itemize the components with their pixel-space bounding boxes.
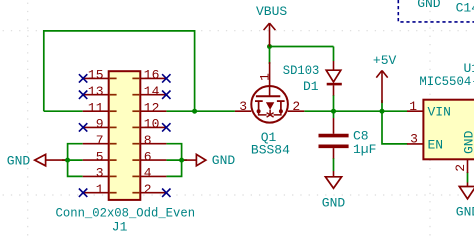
svg-text:14: 14	[144, 84, 160, 99]
junction +5V	[380, 109, 385, 114]
U1 pin number 1	[409, 99, 417, 114]
svg-text:1µF: 1µF	[353, 142, 376, 157]
C8 reference	[353, 128, 369, 143]
U1 pin name VIN	[428, 104, 451, 119]
wire C8 bottom to GND	[333, 158, 335, 171]
U1 pin name GND (rotated)	[461, 130, 474, 154]
J1 pin stubs inside body	[110, 78, 140, 192]
GND label in dashed box	[417, 0, 441, 11]
C8 value 1uF	[353, 142, 376, 157]
svg-text:SD103: SD103	[283, 63, 320, 78]
GND flag right	[182, 154, 206, 165]
U1 pin number 2	[453, 164, 468, 172]
svg-text:15: 15	[88, 68, 104, 83]
svg-text:10: 10	[144, 117, 160, 132]
U1 value MIC5504	[419, 74, 474, 89]
+5V label	[373, 53, 397, 68]
body diode mark	[267, 113, 274, 117]
junction loop/main	[192, 109, 197, 114]
pin 1 line (gate)	[269, 62, 271, 96]
diode D1 SD103	[326, 61, 342, 96]
svg-text:4: 4	[144, 166, 152, 181]
svg-text:7: 7	[96, 133, 104, 148]
svg-text:MIC5504-3.3YM5: MIC5504-3.3YM5	[419, 74, 474, 89]
GND label below C8	[322, 196, 346, 211]
pin 2 line	[288, 110, 305, 112]
D1 value SD103	[283, 63, 320, 78]
GND flag left	[35, 154, 68, 165]
U1 pin 1 VIN line	[407, 110, 423, 112]
transistor Q1 (PMOS BSS84)	[235, 62, 304, 123]
svg-text:C8: C8	[353, 128, 369, 143]
wire C8 top	[333, 111, 335, 118]
svg-text:GND: GND	[322, 196, 346, 211]
Q1 pin number 1	[257, 73, 272, 81]
J1 value label	[56, 205, 196, 220]
svg-text:EN: EN	[428, 137, 444, 152]
svg-text:D1: D1	[303, 79, 319, 94]
svg-text:VBUS: VBUS	[256, 4, 287, 19]
wire D1 top stub	[333, 47, 335, 62]
ground symbol below C8	[325, 171, 341, 188]
IC U1 MIC5504 body	[423, 100, 474, 160]
svg-text:J1: J1	[112, 220, 128, 235]
wire left GND net	[62, 144, 83, 177]
svg-text:3: 3	[410, 132, 418, 147]
Q1 reference	[261, 130, 277, 145]
gate bar	[256, 95, 280, 97]
no-connect X marks	[79, 74, 171, 197]
wire VBUS node horizontal to D1	[270, 46, 334, 48]
junction VBUS	[267, 44, 272, 49]
svg-text:1: 1	[96, 182, 104, 197]
junction right GND	[179, 158, 184, 163]
J1 right pin numbers	[144, 68, 160, 197]
Q1 pin number 2	[292, 99, 300, 114]
U1 pin 2 GND line	[467, 159, 469, 173]
arrow	[266, 102, 274, 109]
ground symbol below U1 pin 2	[459, 183, 474, 199]
wire VBUS node down to Q1 pin1	[269, 47, 271, 65]
svg-text:BSS84: BSS84	[251, 142, 290, 157]
junction left GND	[65, 158, 70, 163]
wire loop from pin 11 around to pin 12 net	[44, 31, 195, 111]
svg-text:12: 12	[144, 100, 160, 115]
wire U1 pin2 to GND	[467, 172, 469, 183]
dashed sheet box top right	[398, 0, 474, 22]
U1 pin 3 EN line	[407, 143, 423, 145]
svg-text:2: 2	[453, 164, 468, 172]
wire +5V node to EN	[382, 111, 408, 144]
channel caps	[255, 100, 263, 102]
svg-text:1: 1	[409, 99, 417, 114]
wire +5V down to main	[381, 100, 383, 111]
capacitor C8	[319, 118, 349, 159]
svg-text:1: 1	[257, 73, 272, 81]
J1 left pin numbers	[88, 68, 104, 197]
junction D1/C8	[331, 109, 336, 114]
svg-text:5: 5	[96, 149, 104, 164]
body rail	[259, 111, 267, 115]
wire right GND net	[166, 144, 187, 177]
wire J1 pin12 to Q1 pin3	[166, 110, 235, 112]
GND label left	[7, 154, 31, 169]
power symbol VBUS	[264, 23, 276, 46]
svg-text:3: 3	[96, 166, 104, 181]
J1 right pin lines	[140, 78, 166, 192]
power symbol +5V	[376, 71, 387, 104]
svg-text:13: 13	[88, 84, 104, 99]
connector J1 body	[109, 71, 141, 200]
svg-text:Conn_02x08_Odd_Even: Conn_02x08_Odd_Even	[56, 205, 196, 220]
svg-text:3: 3	[239, 99, 247, 114]
wire D1 bottom to main	[333, 95, 335, 111]
svg-text:8: 8	[144, 133, 152, 148]
U1 pin number 3	[410, 132, 418, 147]
svg-text:GND: GND	[417, 0, 441, 11]
svg-text:+5V: +5V	[373, 53, 397, 68]
svg-text:GND: GND	[456, 205, 474, 220]
wire main horizontal left (to J1 pin 11)	[44, 110, 83, 112]
svg-text:GND: GND	[7, 154, 31, 169]
wire Q1 pin2 to VIN	[304, 110, 407, 112]
Q1 value BSS84	[251, 142, 290, 157]
Q1 pin number 3	[239, 99, 247, 114]
svg-text:VIN: VIN	[428, 104, 451, 119]
contact stems	[258, 101, 260, 111]
U1 reference	[464, 61, 474, 76]
svg-text:16: 16	[144, 68, 160, 83]
U1 pin name EN	[428, 137, 444, 152]
svg-text:6: 6	[144, 149, 152, 164]
J1 left pin lines	[83, 78, 109, 192]
svg-text:C14: C14	[456, 0, 474, 15]
C14 label in dashed box	[456, 0, 474, 15]
svg-text:GND: GND	[461, 130, 474, 154]
svg-text:2: 2	[144, 182, 152, 197]
GND label right	[212, 153, 236, 168]
VBUS label	[256, 4, 287, 19]
D1 reference	[303, 79, 319, 94]
svg-text:9: 9	[96, 117, 104, 132]
GND label below U1	[456, 205, 474, 220]
svg-text:2: 2	[292, 99, 300, 114]
svg-text:GND: GND	[212, 153, 236, 168]
svg-text:11: 11	[88, 100, 104, 115]
pin 3 line	[235, 110, 251, 112]
J1 reference	[112, 220, 128, 235]
